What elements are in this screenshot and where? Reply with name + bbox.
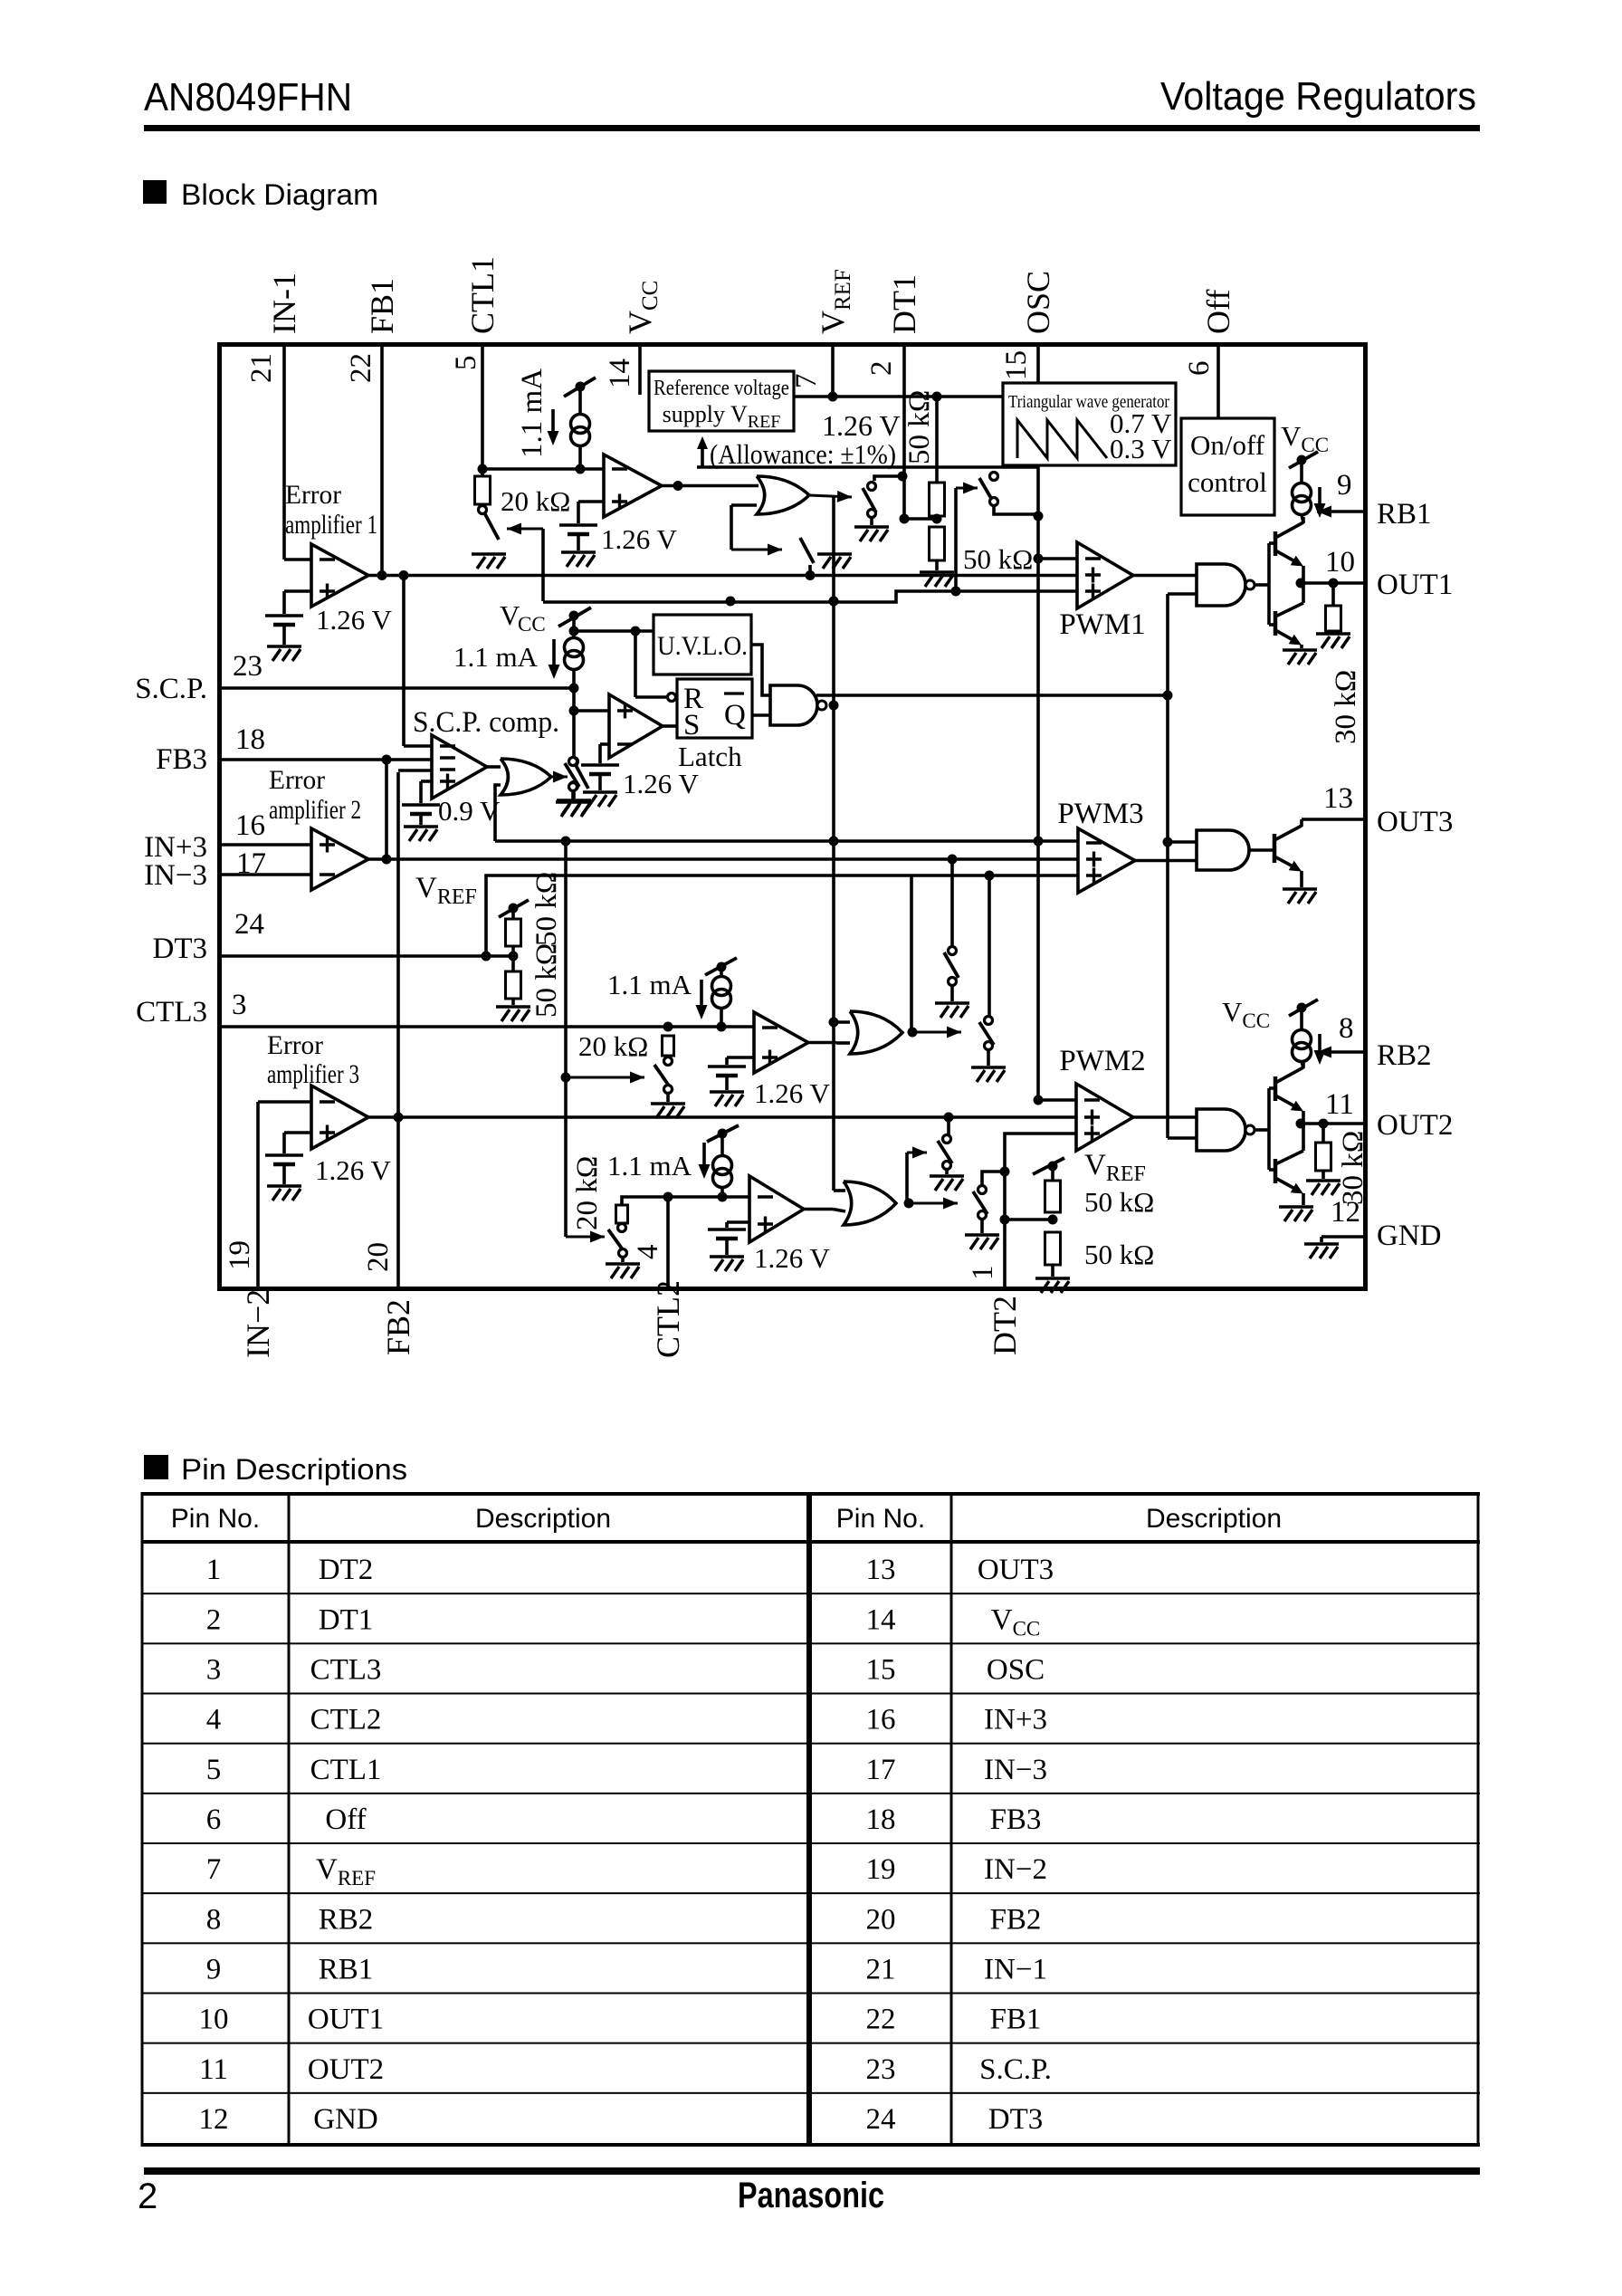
svg-text:1.1 mA: 1.1 mA bbox=[453, 641, 539, 673]
svg-text:OUT1: OUT1 bbox=[308, 2004, 384, 2036]
svg-text:FB2: FB2 bbox=[380, 1299, 416, 1355]
svg-text:IN−3: IN−3 bbox=[984, 1754, 1047, 1786]
svg-text:15: 15 bbox=[866, 1653, 896, 1686]
svg-text:50 kΩ: 50 kΩ bbox=[1084, 1239, 1154, 1270]
svg-text:50 kΩ: 50 kΩ bbox=[1084, 1186, 1154, 1218]
svg-text:GND: GND bbox=[1377, 1220, 1442, 1252]
svg-text:S.C.P.: S.C.P. bbox=[979, 2053, 1052, 2086]
svg-text:Reference voltage: Reference voltage bbox=[654, 377, 789, 400]
svg-text:IN−1: IN−1 bbox=[984, 1953, 1047, 1985]
svg-text:Block Diagram: Block Diagram bbox=[181, 178, 378, 211]
svg-text:2: 2 bbox=[206, 1603, 222, 1636]
svg-text:4: 4 bbox=[632, 1245, 664, 1260]
svg-text:1.26 V: 1.26 V bbox=[601, 523, 677, 555]
svg-text:OSC: OSC bbox=[1020, 271, 1056, 334]
svg-text:Description: Description bbox=[475, 1504, 611, 1534]
svg-text:CTL1: CTL1 bbox=[310, 1754, 382, 1786]
svg-text:IN−2: IN−2 bbox=[240, 1289, 276, 1358]
svg-text:FB1: FB1 bbox=[364, 278, 400, 334]
svg-text:Panasonic: Panasonic bbox=[738, 2176, 884, 2215]
svg-text:RB1: RB1 bbox=[319, 1953, 374, 1985]
svg-text:IN−2: IN−2 bbox=[984, 1853, 1047, 1886]
svg-text:1: 1 bbox=[206, 1554, 222, 1586]
svg-text:Off: Off bbox=[325, 1803, 366, 1836]
svg-text:13: 13 bbox=[866, 1554, 896, 1586]
svg-text:Pin No.: Pin No. bbox=[836, 1504, 925, 1534]
svg-text:10: 10 bbox=[1325, 546, 1355, 579]
svg-text:OUT3: OUT3 bbox=[1377, 806, 1453, 838]
svg-text:18: 18 bbox=[866, 1803, 896, 1836]
svg-text:9: 9 bbox=[206, 1953, 222, 1985]
svg-text:23: 23 bbox=[233, 650, 262, 683]
svg-text:1.1 mA: 1.1 mA bbox=[607, 1150, 692, 1181]
svg-text:1.26 V: 1.26 V bbox=[754, 1077, 830, 1109]
svg-text:1.26 V: 1.26 V bbox=[316, 604, 392, 636]
svg-text:1.26 V: 1.26 V bbox=[315, 1154, 391, 1186]
svg-text:CC: CC bbox=[518, 613, 546, 636]
svg-text:DT3: DT3 bbox=[988, 2103, 1044, 2136]
svg-text:16: 16 bbox=[235, 809, 265, 842]
svg-text:S.C.P.: S.C.P. bbox=[135, 673, 207, 705]
svg-text:On/off: On/off bbox=[1190, 429, 1265, 461]
svg-text:6: 6 bbox=[206, 1803, 222, 1836]
svg-text:15: 15 bbox=[1000, 350, 1033, 380]
svg-text:0.3 V: 0.3 V bbox=[1110, 433, 1172, 464]
svg-text:8: 8 bbox=[206, 1903, 222, 1936]
svg-text:PWM2: PWM2 bbox=[1059, 1045, 1145, 1077]
svg-text:6: 6 bbox=[1183, 361, 1216, 377]
svg-text:5: 5 bbox=[450, 356, 482, 371]
svg-text:RB1: RB1 bbox=[1377, 498, 1432, 531]
svg-text:24: 24 bbox=[866, 2103, 896, 2136]
svg-text:IN+3: IN+3 bbox=[984, 1704, 1047, 1736]
svg-text:9: 9 bbox=[1337, 469, 1352, 502]
svg-text:RB2: RB2 bbox=[1377, 1039, 1432, 1072]
svg-text:control: control bbox=[1188, 466, 1267, 498]
svg-text:22: 22 bbox=[345, 353, 377, 383]
svg-text:1.26 V: 1.26 V bbox=[754, 1242, 830, 1274]
svg-text:20: 20 bbox=[866, 1903, 896, 1936]
svg-text:3: 3 bbox=[206, 1653, 222, 1686]
svg-text:16: 16 bbox=[866, 1704, 896, 1736]
svg-text:10: 10 bbox=[199, 2004, 229, 2036]
svg-text:DT1: DT1 bbox=[886, 274, 922, 334]
svg-text:CTL1: CTL1 bbox=[464, 256, 501, 334]
svg-text:23: 23 bbox=[866, 2053, 896, 2086]
svg-text:GND: GND bbox=[313, 2103, 378, 2136]
svg-text:U.V.L.O.: U.V.L.O. bbox=[657, 631, 748, 661]
svg-text:20: 20 bbox=[362, 1242, 395, 1272]
svg-text:30 kΩ: 30 kΩ bbox=[1330, 670, 1362, 744]
svg-text:19: 19 bbox=[866, 1853, 896, 1886]
svg-text:PWM1: PWM1 bbox=[1059, 608, 1145, 641]
svg-text:AN8049FHN: AN8049FHN bbox=[144, 75, 352, 120]
svg-text:CTL2: CTL2 bbox=[310, 1704, 382, 1736]
svg-text:Latch: Latch bbox=[678, 741, 742, 772]
svg-text:1.26 V: 1.26 V bbox=[623, 768, 699, 799]
svg-text:(Allowance: ±1%): (Allowance: ±1%) bbox=[710, 438, 896, 470]
svg-text:amplifier 3: amplifier 3 bbox=[267, 1059, 359, 1089]
svg-text:DT1: DT1 bbox=[319, 1603, 374, 1636]
svg-text:17: 17 bbox=[866, 1754, 896, 1786]
svg-text:20 kΩ: 20 kΩ bbox=[578, 1030, 648, 1062]
svg-text:4: 4 bbox=[206, 1704, 222, 1736]
svg-text:21: 21 bbox=[866, 1953, 896, 1985]
svg-text:8: 8 bbox=[1339, 1012, 1354, 1045]
svg-text:PWM3: PWM3 bbox=[1057, 798, 1143, 830]
svg-text:20 kΩ: 20 kΩ bbox=[571, 1156, 604, 1230]
svg-text:Error: Error bbox=[267, 1030, 323, 1060]
svg-text:Off: Off bbox=[1200, 290, 1236, 334]
svg-text:24: 24 bbox=[234, 908, 264, 941]
svg-text:30 kΩ: 30 kΩ bbox=[1337, 1131, 1369, 1205]
svg-text:1.1 mA: 1.1 mA bbox=[607, 969, 692, 1000]
svg-text:amplifier 1: amplifier 1 bbox=[285, 510, 377, 540]
svg-text:1.26 V: 1.26 V bbox=[822, 409, 901, 442]
svg-text:OUT3: OUT3 bbox=[978, 1554, 1054, 1586]
svg-text:IN−3: IN−3 bbox=[144, 859, 207, 892]
svg-text:7: 7 bbox=[206, 1853, 222, 1886]
svg-text:OUT2: OUT2 bbox=[1377, 1109, 1453, 1142]
svg-text:Description: Description bbox=[1146, 1504, 1282, 1534]
svg-text:3: 3 bbox=[232, 989, 247, 1021]
svg-text:DT3: DT3 bbox=[153, 933, 208, 965]
svg-text:CTL2: CTL2 bbox=[650, 1280, 686, 1358]
svg-text:FB2: FB2 bbox=[990, 1903, 1042, 1936]
svg-text:amplifier 2: amplifier 2 bbox=[269, 795, 361, 825]
svg-text:1.1 mA: 1.1 mA bbox=[516, 368, 549, 458]
svg-text:50 kΩ: 50 kΩ bbox=[963, 543, 1033, 575]
svg-text:12: 12 bbox=[199, 2103, 229, 2136]
svg-text:18: 18 bbox=[235, 723, 265, 756]
svg-text:14: 14 bbox=[866, 1603, 896, 1636]
svg-text:FB3: FB3 bbox=[156, 743, 207, 776]
svg-text:2: 2 bbox=[865, 361, 898, 377]
svg-text:19: 19 bbox=[224, 1240, 256, 1270]
svg-text:50 kΩ: 50 kΩ bbox=[530, 943, 563, 1018]
svg-text:OUT1: OUT1 bbox=[1377, 569, 1453, 601]
svg-text:14: 14 bbox=[604, 359, 636, 388]
svg-text:FB1: FB1 bbox=[990, 2004, 1042, 2036]
svg-text:11: 11 bbox=[1325, 1088, 1354, 1121]
svg-text:Voltage Regulators: Voltage Regulators bbox=[1160, 74, 1476, 119]
svg-text:Pin Descriptions: Pin Descriptions bbox=[181, 1453, 407, 1486]
svg-text:Pin No.: Pin No. bbox=[171, 1504, 260, 1534]
svg-text:S.C.P. comp.: S.C.P. comp. bbox=[413, 706, 559, 739]
svg-text:FB3: FB3 bbox=[990, 1803, 1042, 1836]
svg-text:1: 1 bbox=[967, 1266, 999, 1281]
svg-text:50 kΩ: 50 kΩ bbox=[903, 390, 936, 464]
svg-text:2: 2 bbox=[138, 2176, 157, 2216]
svg-text:IN-1: IN-1 bbox=[266, 273, 302, 334]
svg-text:13: 13 bbox=[1323, 782, 1353, 815]
svg-text:22: 22 bbox=[866, 2004, 896, 2036]
svg-text:Error: Error bbox=[285, 480, 341, 510]
svg-text:S: S bbox=[683, 709, 700, 741]
svg-text:OUT2: OUT2 bbox=[308, 2053, 384, 2086]
svg-text:11: 11 bbox=[199, 2053, 228, 2086]
svg-text:CTL3: CTL3 bbox=[310, 1653, 382, 1686]
svg-text:OSC: OSC bbox=[987, 1653, 1045, 1686]
svg-text:DT2: DT2 bbox=[987, 1296, 1023, 1355]
svg-text:5: 5 bbox=[206, 1754, 222, 1786]
svg-text:Error: Error bbox=[269, 765, 325, 795]
svg-text:50 kΩ: 50 kΩ bbox=[530, 872, 563, 946]
svg-text:21: 21 bbox=[245, 353, 278, 383]
svg-text:Q: Q bbox=[724, 699, 746, 732]
svg-text:CTL3: CTL3 bbox=[136, 996, 207, 1028]
svg-text:DT2: DT2 bbox=[319, 1554, 374, 1586]
svg-text:20 kΩ: 20 kΩ bbox=[501, 485, 570, 517]
svg-text:RB2: RB2 bbox=[319, 1903, 374, 1936]
svg-text:0.9 V: 0.9 V bbox=[438, 795, 501, 827]
